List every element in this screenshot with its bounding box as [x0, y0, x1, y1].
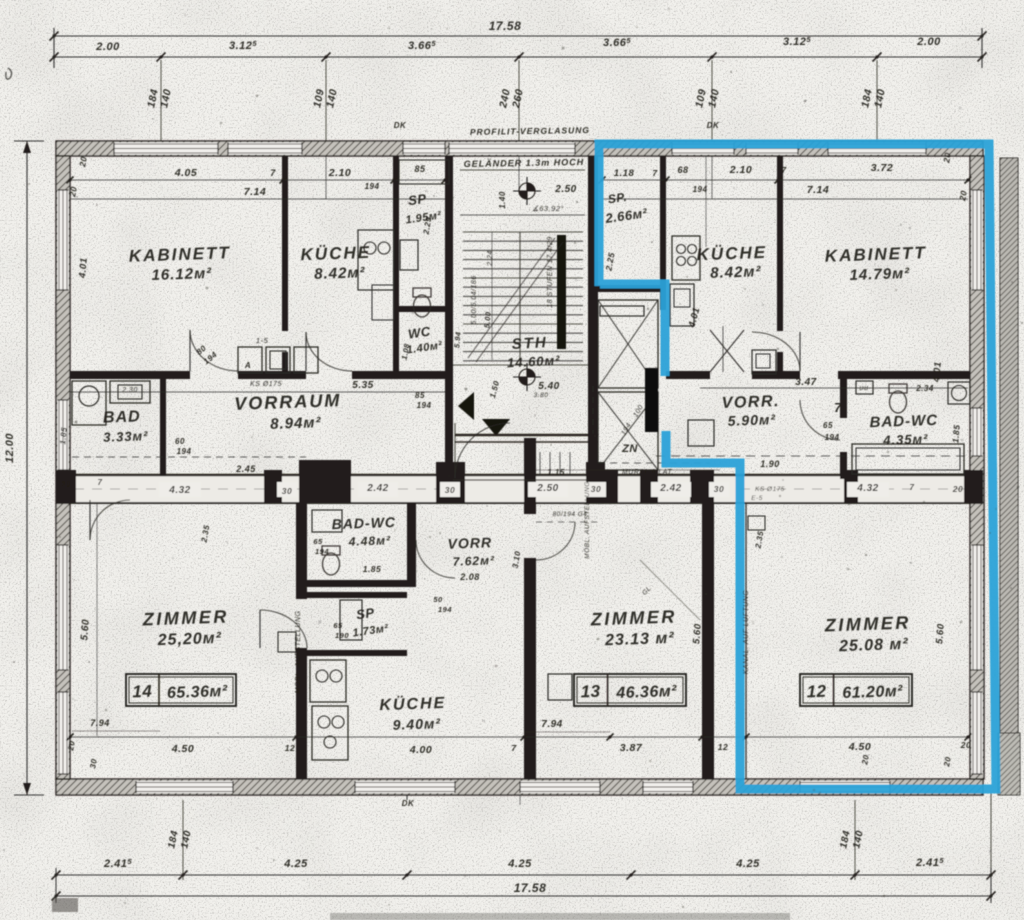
- svg-text:2.10: 2.10: [729, 164, 752, 176]
- svg-text:ZIMMER: ZIMMER: [589, 607, 677, 630]
- svg-text:VORR.: VORR.: [721, 393, 780, 412]
- wall KABINETT/KUECHE left: [282, 156, 288, 331]
- svg-text:12: 12: [718, 742, 728, 752]
- svg-text:190: 190: [335, 631, 349, 640]
- witness lines to building: [160, 60, 162, 141]
- entrance door arcs: [455, 423, 510, 478]
- svg-text:30: 30: [282, 486, 292, 496]
- svg-text:12: 12: [285, 743, 295, 753]
- svg-text:4.35м²: 4.35м²: [882, 431, 929, 448]
- svg-text:1.40: 1.40: [498, 191, 507, 209]
- bottom dim line 2: [56, 895, 991, 897]
- svg-text:4.25: 4.25: [735, 858, 760, 870]
- stairwell left wall: [445, 156, 453, 480]
- svg-text:KS Ø175: KS Ø175: [755, 486, 785, 493]
- svg-text:8.42м²: 8.42м²: [314, 264, 366, 283]
- svg-text:1.90: 1.90: [760, 459, 780, 469]
- BAD wall: [160, 379, 166, 478]
- left dimension 12.00: [26, 141, 28, 795]
- svg-text:DK: DK: [707, 121, 720, 130]
- svg-text:65: 65: [823, 421, 833, 430]
- svg-text:30: 30: [88, 758, 99, 769]
- svg-text:65: 65: [333, 621, 343, 630]
- wall ZIMMER25.20 right: [278, 632, 296, 652]
- svg-text:194: 194: [693, 185, 708, 194]
- entrance steps: [539, 452, 541, 476]
- outer bottom wall: [56, 779, 983, 795]
- svg-text:4.25: 4.25: [507, 858, 532, 870]
- svg-text:194: 194: [315, 547, 329, 556]
- apartment box 14: [126, 674, 236, 706]
- svg-text:WC: WC: [407, 324, 432, 342]
- svg-text:20: 20: [860, 754, 871, 766]
- svg-text:85: 85: [415, 391, 425, 400]
- svg-text:BAD: BAD: [103, 408, 141, 426]
- profilit glazing: [449, 143, 575, 155]
- wall SP2.66/KUECHE right: [660, 156, 666, 310]
- svg-text:3.72: 3.72: [871, 162, 893, 174]
- svg-text:5.60: 5.60: [691, 623, 704, 645]
- right outside terrace strip: [1000, 158, 1018, 733]
- svg-text:2.00: 2.00: [916, 36, 941, 48]
- svg-text:1.18: 1.18: [614, 168, 635, 179]
- svg-text:2.42: 2.42: [659, 483, 681, 494]
- svg-text:14.60м²: 14.60м²: [507, 353, 561, 371]
- svg-text:4.05: 4.05: [174, 167, 197, 179]
- svg-text:194: 194: [417, 401, 432, 410]
- bottom dim line 1: [56, 874, 991, 876]
- svg-text:1.85: 1.85: [363, 564, 382, 574]
- svg-text:8.94м²: 8.94м²: [270, 414, 322, 433]
- outer right wall: [970, 156, 984, 779]
- svg-text:VORR: VORR: [447, 534, 492, 552]
- svg-text:∡63.92°: ∡63.92°: [532, 204, 564, 213]
- svg-text:17.58: 17.58: [489, 19, 522, 33]
- svg-text:14.79м²: 14.79м²: [849, 265, 910, 284]
- outer left wall: [56, 156, 70, 779]
- stair going diagonals: [468, 238, 555, 358]
- dim row upper y199: [70, 198, 445, 200]
- svg-text:DB: DB: [859, 386, 868, 392]
- stairwell right wall: [588, 156, 598, 480]
- kitchen 8.42 left fixtures (KUECHE left wing): [358, 230, 394, 290]
- svg-text:ZIMMER: ZIMMER: [141, 607, 229, 630]
- thin wall line ZIMMER 25.08 left: [745, 503, 747, 779]
- svg-text:2.30: 2.30: [121, 387, 138, 394]
- wall KUECHE/SP column: [393, 156, 399, 375]
- apartment box 13: [574, 674, 686, 706]
- svg-text:1-5: 1-5: [256, 336, 269, 345]
- dashed corridor lines: [72, 456, 306, 458]
- svg-text:A: A: [244, 361, 251, 370]
- BAD-WC 4.48 walls: [407, 503, 416, 587]
- svg-text:SP.: SP.: [607, 190, 628, 207]
- svg-text:7: 7: [511, 743, 517, 753]
- survey circle bottom: [513, 363, 541, 391]
- svg-text:SP: SP: [355, 605, 375, 622]
- outer top wall: [56, 141, 983, 156]
- svg-text:4.00: 4.00: [409, 744, 432, 756]
- svg-text:20: 20: [66, 740, 77, 752]
- svg-text:194: 194: [825, 433, 840, 442]
- horizontal wall above VORR (right wing): [666, 371, 710, 379]
- svg-text:7.62м²: 7.62м²: [453, 553, 496, 568]
- svg-text:4.32: 4.32: [856, 483, 878, 494]
- svg-text:7.94: 7.94: [541, 719, 562, 730]
- stair bottom landing: [453, 364, 588, 366]
- svg-text:7.14: 7.14: [244, 186, 266, 198]
- svg-text:7.94: 7.94: [90, 718, 110, 728]
- svg-text:GELÄNDER 1.3m HOCH: GELÄNDER 1.3m HOCH: [464, 157, 585, 169]
- svg-text:4.50: 4.50: [171, 743, 194, 755]
- svg-text:2.24: 2.24: [487, 250, 494, 267]
- stair treads: [463, 231, 583, 233]
- svg-text:4.50: 4.50: [848, 741, 871, 753]
- svg-text:STH: STH: [511, 334, 548, 353]
- svg-text:30: 30: [714, 484, 724, 494]
- svg-text:3.87: 3.87: [620, 742, 643, 754]
- door arcs various: [190, 330, 238, 371]
- svg-text:65: 65: [313, 537, 323, 546]
- svg-text:12: 12: [806, 682, 827, 702]
- wall KUECHE/KABINETT right: [777, 156, 783, 331]
- svg-text:25.08 м²: 25.08 м²: [838, 636, 909, 655]
- svg-text:25,20м²: 25,20м²: [156, 630, 222, 649]
- svg-text:2.42: 2.42: [366, 483, 388, 494]
- svg-text:60: 60: [175, 437, 185, 446]
- svg-text:MÖBL. AUFSTELLUNG: MÖBL. AUFSTELLUNG: [294, 610, 302, 693]
- svg-text:DK: DK: [402, 799, 415, 808]
- survey circle top: [513, 177, 541, 205]
- toilet apt12: [889, 384, 907, 413]
- top dimension line 17.58: [54, 35, 982, 37]
- svg-text:2.10: 2.10: [328, 167, 351, 179]
- svg-text:3.47: 3.47: [795, 377, 816, 388]
- svg-text:KANAL. AUF LÜFTUNG: KANAL. AUF LÜFTUNG: [742, 590, 750, 675]
- SP 1.73 walls: [307, 592, 407, 598]
- svg-text:KS Ø175: KS Ø175: [250, 381, 282, 388]
- svg-text:5.00: 5.00: [482, 311, 492, 329]
- svg-text:DK: DK: [394, 121, 407, 130]
- SP 2.66 bottom wall: [598, 285, 664, 292]
- mid band dim row y493: [159, 482, 201, 497]
- svg-text:BAD-WC: BAD-WC: [869, 412, 938, 431]
- svg-text:194: 194: [438, 605, 452, 614]
- svg-text:17.58: 17.58: [514, 881, 547, 895]
- svg-text:20: 20: [960, 740, 971, 750]
- kitchen sink row left wing: [238, 347, 262, 373]
- kitchen 8.42 right fixtures: [672, 236, 700, 280]
- svg-text:20: 20: [60, 480, 71, 489]
- svg-text:3.33м²: 3.33м²: [103, 428, 149, 445]
- svg-text:2.45: 2.45: [235, 464, 256, 474]
- bottom dim rows: [70, 736, 970, 738]
- svg-text:BAD-WC: BAD-WC: [331, 514, 396, 532]
- svg-text:20: 20: [77, 155, 89, 168]
- svg-text:VORRAUM: VORRAUM: [234, 390, 342, 414]
- svg-text:2.08: 2.08: [459, 572, 480, 582]
- svg-text:18 STUFEN 17.4/29: 18 STUFEN 17.4/29: [547, 236, 554, 308]
- wall ZIMMER23.13 right: [702, 503, 714, 779]
- svg-text:5.90м²: 5.90м²: [727, 411, 776, 429]
- svg-text:7: 7: [910, 483, 915, 492]
- svg-text:5.60: 5.60: [79, 619, 92, 641]
- stair landing top: [460, 169, 585, 171]
- svg-text:KÜCHE: KÜCHE: [300, 243, 371, 264]
- svg-text:7: 7: [652, 168, 658, 178]
- shaft boxes ZN: [598, 300, 658, 388]
- svg-text:20: 20: [942, 756, 953, 768]
- washbasin BAD-WC 4.48: [312, 510, 342, 532]
- svg-text:20: 20: [957, 189, 969, 202]
- svg-text:5.40: 5.40: [538, 381, 559, 392]
- svg-text:1.85: 1.85: [58, 427, 69, 445]
- svg-text:7: 7: [781, 165, 787, 175]
- svg-text:194: 194: [177, 447, 192, 456]
- svg-text:3.80: 3.80: [534, 392, 549, 399]
- svg-text:MÖBL. AUFSTELLUNG: MÖBL. AUFSTELLUNG: [583, 481, 591, 559]
- wall chunks in band: [56, 470, 76, 503]
- wall VORR/KUECHE col vs ZIMMER 23.13: [524, 438, 536, 514]
- horizontal wall above VORRAUM (left wing): [70, 371, 190, 379]
- svg-text:20: 20: [941, 151, 953, 164]
- svg-text:12.00: 12.00: [4, 433, 16, 463]
- svg-text:PROFILIT-VERGLASUNG: PROFILIT-VERGLASUNG: [470, 125, 590, 137]
- SP/WC divider: [393, 306, 452, 312]
- svg-text:E-5: E-5: [751, 495, 763, 502]
- kitchen 9.40 fixtures: [310, 660, 346, 702]
- svg-text:4.01: 4.01: [931, 361, 944, 383]
- svg-text:4.01: 4.01: [77, 257, 90, 279]
- svg-text:9.40м²: 9.40м²: [392, 715, 441, 733]
- svg-text:4.48м²: 4.48м²: [348, 533, 392, 549]
- BAD fixtures: [72, 381, 106, 425]
- VORRAUM dim row y392: [70, 391, 445, 393]
- svg-text:50: 50: [433, 595, 443, 604]
- svg-text:16.12м²: 16.12м²: [151, 265, 212, 284]
- apartment box 12: [800, 674, 912, 706]
- svg-text:KÜCHE: KÜCHE: [696, 243, 767, 264]
- svg-text:7.14: 7.14: [807, 184, 829, 196]
- svg-text:4.32: 4.32: [168, 485, 190, 496]
- svg-text:KÜCHE: KÜCHE: [379, 693, 447, 714]
- apt12 VORR/BADWC wall: [840, 379, 847, 418]
- svg-text:13: 13: [580, 682, 601, 702]
- svg-text:61.20м²: 61.20м²: [842, 683, 903, 702]
- middle horizontal wall band: [56, 476, 983, 503]
- svg-text:80/194 G4: 80/194 G4: [553, 511, 588, 518]
- svg-text:5.60: 5.60: [934, 623, 947, 645]
- blue highlight outline apartment 12: [599, 144, 996, 789]
- svg-text:SP: SP: [407, 191, 427, 208]
- svg-text:8.42м²: 8.42м²: [710, 263, 762, 282]
- svg-text:KABINETT: KABINETT: [129, 243, 232, 266]
- svg-text:2.50: 2.50: [554, 184, 576, 195]
- svg-text:1.85: 1.85: [950, 424, 962, 443]
- svg-text:85: 85: [414, 164, 426, 174]
- svg-text:ZN: ZN: [621, 443, 638, 455]
- svg-text:7: 7: [834, 400, 842, 415]
- svg-text:KABINETT: KABINETT: [825, 243, 928, 266]
- svg-text:20: 20: [952, 484, 963, 494]
- svg-text:68: 68: [677, 165, 688, 175]
- svg-text:65.36м²: 65.36м²: [167, 683, 228, 702]
- svg-text:1.15: 1.15: [547, 468, 565, 477]
- svg-text:23.13 м²: 23.13 м²: [604, 630, 675, 649]
- entrance arrows: [458, 392, 474, 420]
- svg-text:ZIMMER: ZIMMER: [823, 613, 911, 636]
- svg-text:194: 194: [365, 182, 380, 191]
- svg-text:5.35: 5.35: [352, 380, 373, 391]
- scan specks: [6, 68, 12, 79]
- svg-text:7: 7: [270, 168, 276, 178]
- svg-text:4.25: 4.25: [283, 858, 308, 870]
- svg-text:30: 30: [445, 485, 455, 495]
- svg-text:7: 7: [98, 478, 103, 487]
- second top dimension line: [54, 56, 982, 58]
- svg-text:2.50: 2.50: [536, 483, 558, 494]
- bottom witness lines: [182, 800, 184, 880]
- bathtub apt12: [852, 444, 964, 474]
- svg-text:30: 30: [591, 484, 601, 494]
- svg-text:14: 14: [132, 682, 153, 702]
- dim row upper y180: [70, 179, 445, 181]
- svg-text:2.00: 2.00: [95, 41, 120, 53]
- svg-text:5.94: 5.94: [452, 331, 462, 349]
- svg-text:5.00/5.04/186: 5.00/5.04/186: [471, 275, 478, 324]
- svg-text:2.34: 2.34: [915, 384, 934, 393]
- small squares right wing corridor: [752, 350, 776, 374]
